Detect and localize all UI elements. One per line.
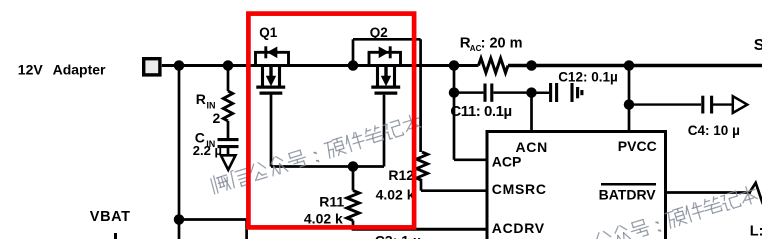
wire: ACP pin wire [454, 158, 488, 161]
open arrow: CIN to ground/off-page (down) [221, 155, 236, 170]
node: R11 top junction on gate rail [348, 161, 359, 172]
svg-text:L:: L: [750, 224, 762, 239]
node: RAC right [526, 60, 537, 71]
node: 12V adapter input terminal (square connector) [144, 59, 160, 75]
label R11 value 4.02k [304, 211, 343, 227]
pin label ACN [516, 139, 548, 155]
svg-text:Q1: Q1 [259, 25, 278, 40]
label VBAT [90, 209, 131, 225]
open arrow: off-page right (after C4) [733, 96, 748, 113]
svg-text:R: R [196, 91, 206, 107]
resistor RAC 20 mohm (sense) [479, 58, 509, 73]
svg-text:: 20 m: : 20 m [481, 35, 523, 51]
svg-text:ACP: ACP [492, 153, 522, 169]
node: RIN top junction [223, 60, 234, 71]
wire: vertical from adapter node down to VBAT node [178, 66, 181, 240]
svg-text:R11: R11 [319, 194, 344, 210]
svg-text:ACDRV: ACDRV [492, 220, 545, 236]
node: RAC left [449, 60, 460, 71]
wire: Q1 gate lead down [270, 93, 273, 166]
capacitor C12 0.1u with ground [532, 83, 582, 102]
label R12 value 4.02k [376, 187, 415, 203]
label RIN value [196, 91, 221, 126]
svg-text:IN: IN [207, 101, 216, 111]
annotation: red highlight rectangle around Q1/Q2 [248, 14, 414, 228]
wire: VBAT horizontal [179, 218, 247, 221]
wire: main AC input rail (left of RAC) [162, 64, 479, 67]
label S (system, cut at right) [754, 37, 762, 54]
svg-text:C12: 0.1µ: C12: 0.1µ [558, 70, 618, 85]
wire: main rail right of RAC to S (system) [508, 64, 762, 67]
svg-text:4.02 k: 4.02 k [304, 211, 343, 227]
label C12: 0.1u [558, 70, 618, 85]
watermark line A: WeChat 微信公众号：硬件笔记本 [210, 113, 423, 195]
label RAC: 20 m [460, 34, 523, 53]
node: Q1/Q2 common junction [348, 60, 359, 71]
node VBAT junction [174, 214, 185, 225]
svg-text:BATDRV: BATDRV [599, 186, 657, 202]
node: C11 left [449, 87, 460, 98]
svg-text:S: S [754, 37, 762, 54]
wire: Q2 gate lead down [383, 95, 386, 167]
svg-text:2: 2 [213, 110, 221, 126]
transistor Q2 (RBFET, body diode pointing right) [368, 46, 402, 93]
label R12 [388, 167, 414, 183]
svg-text:C11: 0.1µ: C11: 0.1µ [450, 103, 511, 120]
wire: PVCC vertical from rail into IC [628, 66, 631, 132]
svg-text:2.2 µ: 2.2 µ [193, 143, 222, 158]
label Q1 [259, 25, 278, 40]
capacitor CIN 2.2u [218, 140, 239, 155]
svg-text:C3: 1 µ: C3: 1 µ [375, 232, 421, 239]
svg-text:Q2: Q2 [370, 25, 388, 40]
wire: ACDRV from R11 bottom to IC [352, 228, 488, 231]
label: 12V Adapter [18, 61, 106, 77]
wire: CMSRC from R12 bottom to IC [421, 189, 488, 192]
label CIN value [193, 130, 222, 159]
svg-text:VBAT: VBAT [90, 209, 131, 225]
node: adapter junction [174, 60, 185, 71]
wire: left sense branch vertical (to ACP) [453, 66, 456, 160]
node: C4 tap [624, 99, 635, 110]
resistor RIN (2 ohm) [223, 66, 232, 140]
capacitor C11 0.1u (across RAC) [454, 84, 532, 102]
op-amp/IC block: charger controller [487, 132, 666, 240]
pin label BATDRV (active low, overline) [599, 184, 657, 202]
wire: vertical drop to C3 (bottom edge) [245, 220, 248, 240]
node: rail/PVCC [624, 60, 635, 71]
label Q2 [370, 25, 388, 40]
svg-text:12V: 12V [18, 61, 44, 77]
pin label PVCC [618, 138, 657, 154]
label R11 [319, 194, 344, 210]
capacitor C4 10u branch [629, 96, 733, 114]
wire: over-the-top of Q2 (junction to R12 top) [353, 39, 421, 152]
label C4: 10u [688, 123, 740, 138]
pin label ACDRV [492, 220, 545, 236]
svg-text:C4: 10 µ: C4: 10 µ [688, 123, 740, 138]
svg-text:PVCC: PVCC [618, 138, 657, 154]
resistor R12 4.02k [416, 152, 427, 191]
svg-text:CMSRC: CMSRC [492, 181, 547, 197]
svg-text:R12: R12 [388, 167, 414, 183]
node: C11 right [526, 87, 537, 98]
watermark line B (bottom right, partial) [594, 184, 759, 240]
wire: gate drive rail Q1-Q2 [271, 165, 384, 168]
wire: BATDRV pin out to inductor (right edge) [666, 183, 762, 200]
pin label ACP [492, 153, 522, 169]
label C3: 1u (cut at bottom) [375, 232, 421, 240]
label L: (inductor, cut) [750, 224, 762, 240]
svg-text:4.02 k: 4.02 k [376, 187, 415, 203]
resistor R11 4.02k [347, 167, 359, 230]
transistor Q1 (ACFET, body diode pointing left) [254, 46, 290, 93]
wire: ACN vertical into IC [530, 93, 533, 132]
pin label CMSRC [492, 181, 547, 197]
battery stub below VBAT label [114, 233, 117, 239]
svg-text:Adapter: Adapter [53, 61, 106, 77]
label C11: 0.1u [450, 103, 511, 120]
